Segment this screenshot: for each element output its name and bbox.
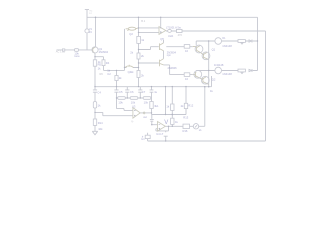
svg-text:tone: tone — [74, 54, 80, 58]
svg-text:1N4148: 1N4148 — [222, 72, 232, 76]
svg-text:10k: 10k — [98, 127, 103, 131]
svg-text:10: 10 — [185, 49, 188, 53]
svg-text:1k: 1k — [166, 105, 169, 109]
svg-text:2N3906: 2N3906 — [168, 66, 178, 70]
svg-text:U3: U3 — [132, 104, 136, 108]
svg-text:R6: R6 — [100, 72, 104, 76]
svg-text:1u: 1u — [154, 90, 157, 94]
svg-text:C4: C4 — [97, 90, 101, 94]
svg-text:1m: 1m — [141, 138, 144, 141]
svg-text:1k: 1k — [210, 89, 213, 93]
svg-text:U2A: U2A — [168, 34, 173, 38]
svg-text:C5: C5 — [119, 90, 123, 94]
svg-text:Q2: Q2 — [129, 32, 133, 36]
svg-text:D1: D1 — [222, 37, 226, 40]
svg-text:470: 470 — [178, 33, 183, 37]
svg-text:Q4: Q4 — [128, 70, 132, 74]
svg-text:1k: 1k — [141, 38, 144, 42]
svg-text:C2: C2 — [107, 72, 111, 76]
svg-text:V: V — [164, 120, 168, 126]
svg-text:10: 10 — [185, 77, 188, 81]
svg-text:npn: npn — [167, 54, 172, 57]
svg-text:U4 LT: U4 LT — [156, 132, 163, 136]
svg-text:12: 12 — [89, 13, 92, 15]
svg-text:R14: R14 — [98, 121, 103, 125]
svg-text:R16: R16 — [183, 129, 188, 133]
svg-text:R13: R13 — [183, 115, 188, 119]
svg-text:2k: 2k — [141, 54, 144, 58]
svg-text:C6: C6 — [130, 90, 134, 94]
svg-text:2k: 2k — [130, 51, 133, 55]
svg-text:C7: C7 — [142, 90, 146, 94]
svg-text:Q2: Q2 — [212, 78, 216, 82]
svg-text:10k: 10k — [118, 100, 123, 104]
svg-text:1k: 1k — [98, 103, 101, 107]
svg-text:LT1001 A 5m: LT1001 A 5m — [166, 25, 181, 29]
svg-text:R12: R12 — [188, 104, 193, 108]
svg-text:24: 24 — [89, 31, 92, 34]
svg-text:10k: 10k — [131, 100, 136, 104]
svg-text:3k1: 3k1 — [154, 104, 159, 108]
svg-text:Q5: Q5 — [160, 37, 164, 41]
svg-text:2k: 2k — [119, 76, 122, 80]
svg-text:2N3904: 2N3904 — [99, 50, 109, 54]
svg-text:1N4148: 1N4148 — [222, 44, 232, 48]
svg-text:Q1: Q1 — [212, 47, 216, 51]
svg-text:V-: V- — [131, 120, 134, 124]
svg-text:R4: R4 — [106, 61, 110, 65]
svg-text:AC 1: AC 1 — [56, 50, 62, 54]
svg-text:10k: 10k — [144, 100, 149, 104]
svg-text:2k: 2k — [181, 104, 184, 108]
svg-text:out: out — [143, 115, 147, 119]
svg-text:x1: x1 — [199, 128, 202, 132]
svg-text:1N4148: 1N4148 — [214, 63, 224, 67]
svg-text:1k: 1k — [175, 120, 178, 124]
svg-text:1k: 1k — [98, 66, 101, 70]
svg-text:B.1: B.1 — [141, 19, 145, 23]
svg-text:2k: 2k — [141, 73, 144, 77]
